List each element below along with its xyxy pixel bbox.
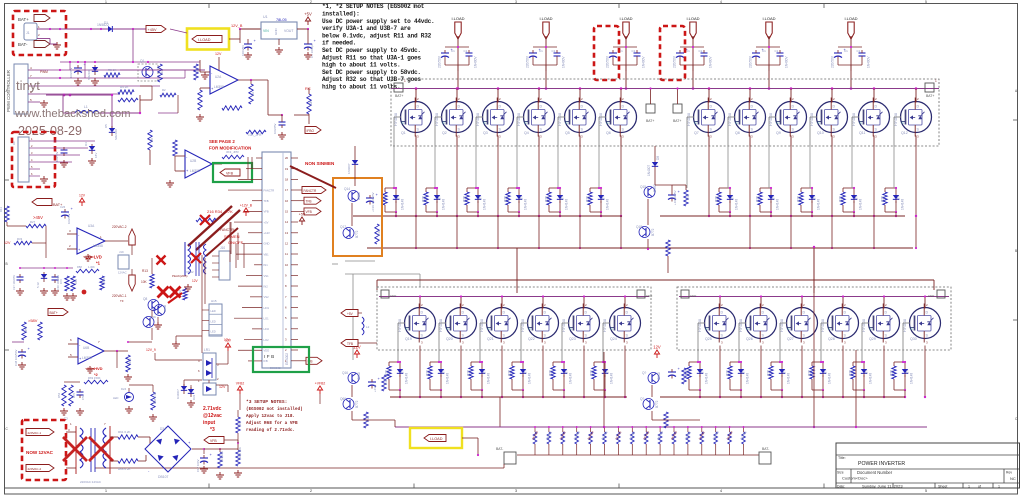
svg-text:Q1: Q1 [140, 59, 144, 63]
svg-text:Q1: Q1 [401, 131, 406, 135]
svg-text:R27: R27 [30, 220, 36, 224]
svg-text:Q10: Q10 [817, 131, 824, 135]
svg-text:SEE PAGE 2: SEE PAGE 2 [209, 139, 235, 144]
svg-text:R26: R26 [756, 196, 760, 202]
svg-text:1N4148: 1N4148 [528, 373, 532, 384]
svg-text:Q6: Q6 [606, 131, 611, 135]
svg-text:10: 10 [285, 263, 289, 267]
svg-text:R26: R26 [890, 370, 894, 376]
svg-text:A0: A0 [12, 141, 16, 145]
svg-text:U6B: U6B [83, 346, 89, 350]
svg-text:Q?: Q? [640, 397, 644, 401]
svg-text:D: D [875, 105, 878, 109]
svg-text:FANCTR: FANCTR [264, 188, 275, 192]
svg-text:Q66: Q66 [340, 397, 346, 401]
svg-text:below 0.1vdc, adjust R11 and R: below 0.1vdc, adjust R11 and R32 [322, 32, 432, 39]
svg-text:Document Number: Document Number [857, 470, 893, 475]
svg-text:D880: D880 [357, 192, 361, 200]
svg-text:C5 1000pF: C5 1000pF [310, 43, 314, 58]
svg-text:1N4148: 1N4148 [828, 373, 832, 384]
svg-text:2: 2 [310, 0, 312, 4]
svg-text:220/50V: 220/50V [438, 55, 442, 68]
svg-text:5.1V: 5.1V [36, 282, 40, 288]
svg-text:R40: R40 [377, 230, 381, 236]
svg-text:220/50V: 220/50V [831, 55, 835, 68]
svg-text:D: D [917, 105, 920, 109]
svg-text:HY4808: HY4808 [439, 319, 443, 332]
svg-text:HO2: HO2 [264, 327, 270, 331]
svg-text:B772: B772 [355, 400, 359, 408]
svg-text:reading of 2.71vdc.: reading of 2.71vdc. [246, 428, 295, 433]
svg-text:TF: TF [120, 299, 124, 303]
svg-text:1N400V: 1N400V [709, 56, 713, 68]
svg-text:VDD: VDD [264, 349, 270, 353]
svg-text:R5 1K: R5 1K [108, 68, 116, 72]
svg-text:12V: 12V [653, 345, 661, 350]
svg-text:NOW 12VAC: NOW 12VAC [26, 450, 54, 455]
svg-text:D: D [421, 311, 424, 315]
svg-text:R52: R52 [24, 326, 28, 332]
svg-text:R61 6.2K: R61 6.2K [118, 430, 131, 434]
svg-text:Adjust R11 so that U3A-1 goes: Adjust R11 so that U3A-1 goes [322, 54, 421, 61]
svg-text:HY4808: HY4808 [821, 319, 825, 332]
svg-text:+VFB2: +VFB2 [315, 382, 326, 386]
svg-text:1N4148: 1N4148 [746, 373, 750, 384]
svg-text:B772: B772 [655, 400, 659, 408]
svg-text:1: 1 [998, 485, 1000, 489]
svg-text:PWM: PWM [40, 70, 48, 74]
svg-text:Apply 12vac to J18.: Apply 12vac to J18. [246, 414, 295, 419]
svg-text:R59: R59 [102, 278, 106, 283]
svg-text:HY4808: HY4808 [728, 113, 732, 126]
svg-text:Q8: Q8 [735, 131, 740, 135]
svg-text:220VAC:12VAC: 220VAC:12VAC [80, 480, 102, 484]
svg-text:R60: R60 [128, 358, 132, 364]
svg-text:@12vac: @12vac [203, 413, 222, 419]
svg-text:17: 17 [285, 188, 289, 192]
svg-text:R26: R26 [808, 370, 812, 376]
svg-text:GND: GND [264, 242, 270, 246]
svg-text:PEAK(2FB): PEAK(2FB) [172, 274, 188, 278]
svg-text:R66 6.2K: R66 6.2K [118, 467, 131, 471]
svg-text:input: input [203, 420, 216, 426]
svg-text:www.thebackshed.com: www.thebackshed.com [14, 108, 131, 120]
svg-text:1N4148: 1N4148 [569, 373, 573, 384]
svg-text:LED: LED [113, 396, 118, 400]
svg-text:Q12: Q12 [901, 131, 908, 135]
svg-text:R26: R26 [422, 196, 426, 202]
svg-text:20: 20 [285, 156, 289, 160]
svg-text:>58V: >58V [28, 318, 38, 323]
svg-text:C1: C1 [539, 49, 543, 53]
svg-text:HY4808: HY4808 [394, 113, 398, 126]
svg-text:H15: H15 [211, 299, 217, 303]
svg-text:C50: C50 [81, 394, 85, 400]
svg-text:VFB: VFB [264, 210, 269, 214]
svg-text:C1: C1 [686, 49, 690, 53]
svg-text:D: D [792, 105, 795, 109]
svg-text:Q22: Q22 [528, 337, 535, 341]
svg-text:R26: R26 [726, 370, 730, 376]
svg-text:IN1: IN1 [264, 263, 269, 267]
svg-text:D: D [499, 105, 502, 109]
svg-text:HY4808: HY4808 [852, 113, 856, 126]
svg-text:D: D [503, 311, 506, 315]
svg-text:C17 100V: C17 100V [196, 459, 200, 472]
svg-text:FANCTR: FANCTR [304, 189, 317, 193]
svg-text:220VAC-2: 220VAC-2 [28, 467, 42, 471]
svg-text:NC: NC [1010, 476, 1016, 481]
svg-text:4: 4 [720, 0, 722, 4]
svg-text:IFB: IFB [264, 359, 268, 363]
svg-text:3K3_JPR: 3K3_JPR [226, 150, 240, 154]
svg-text:Custom<Doc>: Custom<Doc> [842, 476, 868, 481]
svg-text:R67 10K: R67 10K [220, 451, 224, 462]
svg-text:*3: *3 [210, 427, 215, 433]
svg-text:high to about 11 volts.: high to about 11 volts. [322, 62, 400, 69]
svg-text:Q4: Q4 [524, 131, 529, 135]
svg-text:C1: C1 [632, 49, 636, 53]
svg-text:D: D [581, 105, 584, 109]
svg-text:Adjust R68 for a VFB: Adjust R68 for a VFB [246, 421, 298, 426]
svg-text:BAT+: BAT+ [18, 17, 29, 22]
svg-text:VS1: VS1 [264, 274, 270, 278]
svg-text:D: D [585, 311, 588, 315]
svg-text:R64: R64 [74, 279, 78, 284]
svg-text:R70: R70 [72, 392, 76, 398]
svg-text:R7: R7 [196, 68, 200, 72]
svg-text:GND: GND [646, 294, 652, 298]
svg-text:Q?: Q? [642, 371, 646, 375]
svg-text:GND: GND [690, 294, 696, 298]
svg-text:D: D [762, 311, 765, 315]
svg-text:R9: R9 [251, 92, 255, 96]
svg-text:VFB2: VFB2 [236, 382, 245, 386]
svg-text:1N4148: 1N4148 [705, 373, 709, 384]
svg-text:Q8: Q8 [143, 297, 147, 301]
svg-text:16: 16 [285, 199, 289, 203]
svg-text:LO2: LO2 [264, 338, 270, 342]
svg-text:1: 1 [105, 0, 107, 4]
svg-text:GND: GND [928, 294, 934, 298]
svg-text:HY4808: HY4808 [521, 319, 525, 332]
svg-text:100/25V: 100/25V [67, 213, 71, 224]
svg-text:R26: R26 [839, 196, 843, 202]
svg-text:12V: 12V [4, 241, 11, 245]
svg-text:HY4808: HY4808 [780, 319, 784, 332]
svg-text:R11: R11 [0, 207, 3, 212]
svg-text:220/50V: 220/50V [526, 55, 530, 68]
svg-text:1N4148: 1N4148 [446, 373, 450, 384]
svg-text:100/25V: 100/25V [273, 123, 277, 134]
svg-text:Q28: Q28 [828, 337, 835, 341]
svg-text:VFB: VFB [226, 171, 234, 175]
svg-text:100/25V: 100/25V [69, 67, 73, 78]
svg-text:12V: 12V [192, 279, 199, 283]
svg-text:D: D [803, 311, 806, 315]
svg-text:220/50V: 220/50V [749, 55, 753, 68]
svg-text:D: D [926, 311, 929, 315]
svg-text:Q29: Q29 [869, 337, 876, 341]
svg-text:IFBO: IFBO [307, 129, 315, 133]
svg-text:1N4148: 1N4148 [565, 199, 569, 210]
svg-text:19: 19 [285, 167, 289, 171]
svg-text:12V_B: 12V_B [231, 24, 243, 28]
svg-text:C960: C960 [357, 372, 361, 380]
svg-text:C1: C1 [699, 49, 703, 53]
svg-text:1N4148: 1N4148 [859, 199, 863, 210]
svg-text:HY4808: HY4808 [894, 113, 898, 126]
svg-text:R26: R26 [590, 370, 594, 376]
svg-text:+C19 1000/25V: +C19 1000/25V [371, 192, 375, 212]
svg-text:Q21: Q21 [487, 337, 494, 341]
svg-text:B772: B772 [651, 228, 655, 236]
svg-text:Use DC power supply set to 44v: Use DC power supply set to 44vdc. [322, 18, 434, 25]
svg-text:VB1: VB1 [264, 252, 270, 256]
svg-text:D: D [540, 105, 543, 109]
svg-text:R58: R58 [77, 265, 82, 269]
svg-text:VOUT: VOUT [284, 29, 293, 33]
svg-text:HY4808: HY4808 [435, 113, 439, 126]
svg-text:1N400V: 1N400V [642, 56, 646, 68]
svg-text:D33: D33 [192, 394, 196, 400]
svg-text:tinyt: tinyt [16, 78, 40, 93]
svg-text:R26: R26 [881, 196, 885, 202]
svg-text:FANCTRL: FANCTRL [220, 228, 236, 232]
svg-text:1N4148: 1N4148 [405, 373, 409, 384]
svg-text:I.LOAD: I.LOAD [451, 16, 464, 21]
svg-text:+12V: +12V [264, 231, 271, 235]
svg-text:R68 6.1K: R68 6.1K [153, 392, 157, 404]
svg-text:D: D [833, 105, 836, 109]
svg-text:I.LOAD: I.LOAD [430, 437, 443, 441]
svg-text:Q15: Q15 [640, 185, 646, 189]
svg-text:Q25: Q25 [705, 337, 712, 341]
svg-text:R26: R26 [508, 370, 512, 376]
svg-text:100/25V: 100/25V [241, 45, 245, 56]
svg-text:1N400V: 1N400V [785, 56, 789, 68]
svg-text:R26: R26 [463, 196, 467, 202]
svg-text:12V: 12V [79, 194, 86, 198]
svg-text:HY4808: HY4808 [480, 319, 484, 332]
svg-text:1N4148: 1N4148 [776, 199, 780, 210]
svg-text:R6: R6 [238, 422, 242, 426]
svg-text:L2: L2 [366, 325, 370, 329]
svg-text:U2A: U2A [215, 75, 222, 79]
svg-text:U2B: U2B [190, 159, 196, 163]
svg-text:D34: D34 [160, 427, 166, 431]
svg-text:18: 18 [285, 178, 289, 182]
svg-text:BAT+: BAT+ [646, 119, 654, 123]
svg-text:1N400V: 1N400V [474, 56, 478, 68]
svg-text:1N4148: 1N4148 [869, 373, 873, 384]
svg-text:100/50V: 100/50V [55, 151, 59, 162]
svg-text:14: 14 [285, 220, 289, 224]
svg-text:220/50V: 220/50V [606, 55, 610, 68]
svg-text:hihg to about 11 volts.: hihg to about 11 volts. [322, 84, 400, 91]
svg-text:Sheet: Sheet [938, 485, 947, 489]
svg-text:TFB: TFB [306, 200, 312, 204]
svg-text:Date:: Date: [837, 485, 845, 489]
svg-text:12V_9: 12V_9 [146, 348, 156, 352]
svg-text:HY4808: HY4808 [476, 113, 480, 126]
svg-text:1N4148: 1N4148 [524, 199, 528, 210]
svg-text:12V: 12V [225, 339, 232, 343]
svg-text:+C20: +C20 [373, 384, 377, 392]
svg-text:+5V: +5V [264, 220, 269, 224]
svg-text:BAT-: BAT- [496, 447, 503, 451]
svg-text:BAT+: BAT+ [673, 119, 681, 123]
svg-text:C1: C1 [552, 49, 556, 53]
svg-text:D8: D8 [656, 156, 660, 160]
svg-text:J10: J10 [220, 246, 225, 250]
svg-text:HY4808: HY4808 [769, 113, 773, 126]
svg-text:+12V_B: +12V_B [240, 204, 253, 208]
svg-text:Rev: Rev [1006, 471, 1012, 475]
svg-text:LED: LED [211, 330, 216, 334]
svg-text:R3: R3 [160, 70, 164, 74]
svg-text:2.71vdc: 2.71vdc [203, 406, 222, 412]
svg-text:*1, *2 SETUP NOTES (EGS002 not: *1, *2 SETUP NOTES (EGS002 not [322, 3, 425, 10]
svg-text:HO1: HO1 [264, 306, 270, 310]
svg-text:C1: C1 [844, 49, 848, 53]
svg-text:Q24: Q24 [610, 337, 617, 341]
svg-text:Size: Size [837, 471, 844, 475]
svg-text:C1: C1 [464, 49, 468, 53]
svg-text:R26: R26 [797, 196, 801, 202]
svg-text:Q30: Q30 [910, 337, 917, 341]
svg-text:R69 150K: R69 150K [88, 376, 101, 380]
svg-text:TFB: TFB [264, 199, 269, 203]
svg-text:if needed.: if needed. [322, 40, 356, 47]
svg-text:216 R34 -4.7K: 216 R34 -4.7K [207, 209, 233, 214]
svg-text:1: 1 [404, 79, 406, 83]
svg-text:R66 20K: R66 20K [238, 447, 242, 458]
svg-text:220/50V: 220/50V [673, 55, 677, 68]
svg-text:U3A: U3A [88, 224, 95, 228]
svg-text:VIN: VIN [263, 29, 269, 33]
svg-text:of: of [978, 485, 981, 489]
svg-text:1: 1 [968, 485, 970, 489]
svg-text:12: 12 [285, 242, 289, 246]
svg-text:D: D [885, 311, 888, 315]
svg-text:J19: J19 [119, 250, 124, 254]
svg-text:+5V: +5V [347, 312, 354, 316]
svg-text:LED: LED [211, 319, 216, 323]
svg-text:LM358: LM358 [93, 244, 103, 248]
svg-text:R4 2K: R4 2K [120, 85, 128, 89]
svg-text:+5V: +5V [299, 213, 306, 217]
svg-text:B: B [1015, 249, 1017, 253]
svg-text:5.1K: 5.1K [366, 416, 370, 422]
svg-text:Adjust R32 so that U3B-7 goes: Adjust R32 so that U3B-7 goes [322, 76, 421, 83]
svg-text:Q3: Q3 [483, 131, 488, 135]
svg-text:C960: C960 [657, 372, 661, 380]
svg-text:GND: GND [274, 28, 278, 36]
svg-text:R26: R26 [426, 370, 430, 376]
svg-text:SR2100: SR2100 [87, 69, 91, 80]
svg-text:1N4148: 1N4148 [401, 199, 405, 210]
svg-text:Q9: Q9 [776, 131, 781, 135]
svg-text:LM358: LM358 [82, 356, 92, 360]
svg-text:Q18: Q18 [636, 225, 642, 229]
svg-text:1N4148: 1N4148 [442, 199, 446, 210]
svg-text:I.LOAD: I.LOAD [539, 16, 552, 21]
svg-text:HY4808: HY4808 [903, 319, 907, 332]
svg-text:BAT-: BAT- [762, 447, 769, 451]
svg-text:220VAC-1: 220VAC-1 [28, 431, 42, 435]
svg-text:C1: C1 [451, 49, 455, 53]
svg-text:Q16: Q16 [342, 371, 348, 375]
svg-text:*3 SETUP NOTES:: *3 SETUP NOTES: [246, 399, 287, 405]
svg-text:IFB: IFB [264, 354, 276, 359]
svg-text:Q2: Q2 [442, 131, 447, 135]
svg-text:DB107: DB107 [158, 475, 168, 479]
svg-text:1N4007: 1N4007 [347, 163, 351, 174]
svg-text:*1: *1 [96, 261, 101, 266]
svg-text:5: 5 [925, 0, 927, 4]
svg-text:LR1: LR1 [204, 348, 210, 352]
svg-text:12VAC: 12VAC [118, 271, 127, 275]
svg-text:+1000/25V: +1000/25V [673, 190, 677, 205]
svg-text:C1: C1 [857, 49, 861, 53]
svg-text:I.LOAD: I.LOAD [198, 38, 211, 42]
svg-text:3: 3 [515, 0, 517, 4]
svg-text:D: D [844, 311, 847, 315]
svg-text:TFB: TFB [347, 342, 353, 346]
svg-text:C1: C1 [762, 49, 766, 53]
svg-text:1N4148: 1N4148 [787, 373, 791, 384]
svg-text:HY4808: HY4808 [562, 319, 566, 332]
svg-text:+45V: +45V [148, 28, 157, 32]
svg-text:R2: R2 [162, 88, 166, 92]
svg-text:PWM CONTROLLER: PWM CONTROLLER [6, 70, 11, 112]
svg-text:Q11: Q11 [859, 131, 866, 135]
svg-text:I.LOAD: I.LOAD [844, 16, 857, 21]
svg-text:C27 100/25V: C27 100/25V [12, 275, 16, 290]
svg-text:1N4148: 1N4148 [483, 199, 487, 210]
svg-text:POWER INVERTER: POWER INVERTER [858, 461, 905, 467]
svg-text:R8: R8 [150, 138, 154, 142]
svg-text:15: 15 [285, 210, 289, 214]
svg-text:D: D [626, 311, 629, 315]
svg-text:HY4808: HY4808 [599, 113, 603, 126]
svg-text:Q26: Q26 [746, 337, 753, 341]
svg-text:R70: R70 [59, 279, 63, 284]
svg-text:220VAC-2: 220VAC-2 [112, 225, 127, 229]
svg-text:12V: 12V [215, 52, 222, 56]
svg-text:Title:: Title: [838, 456, 846, 460]
svg-text:BAT-: BAT- [18, 42, 28, 47]
svg-text:HY4808: HY4808 [517, 113, 521, 126]
svg-text:D880: D880 [163, 304, 167, 312]
svg-text:1N4148: 1N4148 [817, 199, 821, 210]
svg-text:D: D [458, 105, 461, 109]
svg-text:1: 1 [935, 79, 937, 83]
svg-text:Sunday, June 11, 2023: Sunday, June 11, 2023 [862, 484, 903, 489]
svg-text:HY4808: HY4808 [687, 113, 691, 126]
svg-text:Set DC power supply to 58vdc.: Set DC power supply to 58vdc. [322, 69, 421, 76]
svg-text:Q5: Q5 [565, 131, 570, 135]
svg-text:C1: C1 [775, 49, 779, 53]
svg-text:EGS002: EGS002 [270, 366, 281, 370]
svg-text:HY4808: HY4808 [810, 113, 814, 126]
svg-text:Q14: Q14 [344, 187, 350, 191]
svg-text:D: D [462, 311, 465, 315]
svg-text:1N4007: 1N4007 [176, 389, 180, 399]
svg-text:1N4148: 1N4148 [487, 373, 491, 384]
svg-text:Q19: Q19 [405, 337, 412, 341]
